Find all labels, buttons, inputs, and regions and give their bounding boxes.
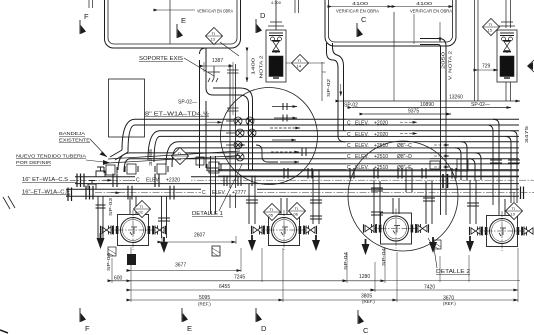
stub line near I1 top	[295, 0, 299, 13]
P3 suction riser	[393, 198, 399, 214]
svg-text:16" ET–W1A–C.S: 16" ET–W1A–C.S	[22, 177, 69, 183]
svg-text:3677: 3677	[175, 263, 186, 269]
centerline ELEV +2777	[95, 192, 534, 194]
section marker D bottom	[256, 308, 262, 322]
svg-text:3475: 3475	[524, 125, 529, 143]
diamond tag TI-02	[134, 201, 151, 218]
flange pair on C.E pipe	[128, 186, 174, 200]
svg-text:POR DEFINIR: POR DEFINIR	[16, 160, 52, 165]
pipe break marks left edge	[3, 196, 15, 209]
P2 suction riser	[281, 198, 287, 214]
svg-text:SP-03: SP-03	[108, 197, 113, 216]
valve on C.E pipe	[88, 181, 96, 190]
corner mark bottom-left	[0, 330, 8, 333]
small valves inside detail 1	[226, 88, 306, 170]
P1 suction riser	[130, 196, 136, 214]
header line 10890	[352, 107, 511, 109]
svg-text:SP-04: SP-04	[106, 252, 111, 271]
elbows pipes 3-4 down	[455, 142, 481, 180]
small riser with flanges x=232	[227, 64, 239, 208]
small sp box P3	[433, 240, 441, 249]
svg-text:Ø8"–D: Ø8"–D	[397, 154, 412, 160]
section arrow right edge	[528, 62, 534, 70]
svg-text:10: 10	[511, 212, 516, 217]
drain cone P1 right	[160, 237, 168, 253]
diamond tag TI-13	[206, 28, 223, 45]
svg-text:15: 15	[488, 28, 493, 33]
svg-text:C: C	[347, 132, 351, 138]
svg-text:TI: TI	[489, 22, 493, 27]
drain cone P2 left	[248, 235, 256, 251]
svg-text:02: 02	[139, 210, 144, 215]
svg-text:2607: 2607	[194, 233, 205, 239]
stub line above I2	[506, 0, 511, 28]
P4 suction riser	[499, 199, 505, 215]
svg-text:2050: 2050	[441, 51, 446, 69]
section marker F bottom	[80, 308, 86, 322]
risers above P3	[371, 159, 468, 224]
svg-text:SOPORTE EXIS: SOPORTE EXIS	[139, 56, 184, 62]
flange ticks on +2320 row mid	[224, 176, 255, 187]
svg-text:TI: TI	[178, 151, 182, 156]
svg-text:F: F	[84, 12, 89, 21]
svg-text:E: E	[181, 16, 186, 25]
svg-text:4100: 4100	[352, 1, 369, 6]
svg-text:VERIFICAR EN OBRA: VERIFICAR EN OBRA	[410, 9, 452, 14]
tray lines (bandeja)	[108, 151, 240, 163]
pump P4	[476, 211, 528, 251]
svg-text:16"–ET–W1A–C.E: 16"–ET–W1A–C.E	[22, 190, 71, 196]
section marker E top	[177, 24, 183, 38]
svg-text:DETALLE 2: DETALLE 2	[436, 269, 470, 275]
pump P3	[370, 209, 422, 249]
svg-text:+2320: +2320	[166, 177, 180, 183]
flow arrows on 16" pipes	[103, 179, 112, 181]
elbows pipes 1-2 down to P4	[487, 119, 517, 168]
section marker E bottom	[182, 308, 188, 322]
section marker C top	[357, 23, 363, 37]
svg-text:C: C	[363, 326, 369, 335]
svg-text:ELEV.: ELEV.	[355, 132, 369, 138]
dimension 4100 right	[396, 6, 453, 8]
diamond tag TI-05	[264, 204, 281, 221]
svg-text:1387: 1387	[212, 58, 223, 64]
svg-text:ELEV.: ELEV.	[146, 177, 160, 183]
tray fittings	[104, 157, 221, 175]
svg-text:C: C	[347, 154, 351, 160]
svg-text:TI: TI	[295, 206, 299, 211]
extension lines	[112, 236, 518, 302]
TI-10 stem	[513, 192, 515, 202]
header line 13260	[340, 100, 520, 102]
dimension 4100 left	[332, 6, 392, 8]
svg-text:13260: 13260	[449, 95, 463, 101]
dark box below P1	[127, 254, 136, 265]
equipment outline E1 top-left	[105, 0, 241, 48]
svg-text:TI: TI	[140, 204, 144, 209]
svg-text:NUEVO TENDIDO TUBERIA: NUEVO TENDIDO TUBERIA	[16, 154, 86, 159]
drain cone P4 left	[466, 236, 474, 252]
diamond tag TI-15	[483, 19, 500, 36]
svg-text:ELEV.: ELEV.	[355, 143, 369, 149]
pipe riser from E2 left	[327, 43, 346, 142]
risers above P4	[467, 160, 520, 224]
valve left of P1	[101, 226, 113, 234]
svg-text:VERIFICAR EN OBRA: VERIFICAR EN OBRA	[197, 9, 233, 14]
vertical pipe right x=443 through band	[441, 101, 447, 215]
svg-text:4.300: 4.300	[271, 0, 282, 5]
svg-text:+2510: +2510	[374, 154, 388, 160]
detail circle DETALLE 1	[221, 88, 318, 185]
diamond tag TI-06	[289, 203, 306, 220]
svg-text:F: F	[85, 324, 90, 333]
horizontal pipe y=173	[218, 171, 519, 176]
pipe run ELEV+2510 D (through TI-04 diamond)	[118, 153, 519, 172]
svg-text:TI: TI	[512, 206, 516, 211]
svg-text:Ø8"–E: Ø8"–E	[397, 165, 412, 171]
svg-text:TI: TI	[212, 31, 216, 36]
svg-text:EXISTENTE: EXISTENTE	[59, 138, 90, 143]
svg-text:C: C	[202, 190, 206, 196]
svg-text:C: C	[347, 120, 351, 126]
svg-text:C: C	[347, 143, 351, 149]
drain cone P1 left	[97, 233, 105, 249]
vertical line x=394 to band	[393, 43, 395, 101]
svg-text:SP-02: SP-02	[344, 103, 358, 109]
pump P1	[107, 210, 159, 250]
svg-text:+2510: +2510	[374, 165, 388, 171]
drain cone P3 left	[362, 239, 370, 255]
flange pair on C.S pipe	[113, 174, 159, 188]
pipe riser from E1	[200, 48, 241, 168]
svg-text:7245: 7245	[234, 275, 245, 281]
svg-text:05: 05	[269, 213, 274, 218]
pipe run ELEV+2510 E	[218, 164, 519, 170]
instrument assembly I1	[266, 30, 286, 82]
svg-text:06: 06	[294, 212, 299, 217]
svg-text:NOTA 2: NOTA 2	[259, 55, 264, 79]
svg-text:9375: 9375	[408, 109, 419, 115]
section marker F top	[80, 20, 86, 34]
svg-text:TI: TI	[270, 207, 274, 212]
svg-text:SP-02—: SP-02—	[178, 100, 197, 106]
pipe run ELEV+2020 a	[110, 119, 519, 160]
drain cone P3 right	[429, 237, 437, 253]
svg-text:6455: 6455	[219, 284, 230, 290]
svg-text:+2020: +2020	[374, 132, 388, 138]
svg-text:8" ET–W1A–TD4,½: 8" ET–W1A–TD4,½	[145, 111, 210, 118]
riser pair above P2 left	[208, 156, 323, 224]
svg-text:13: 13	[211, 37, 216, 42]
svg-text:4100: 4100	[416, 1, 433, 6]
pipe run ELEV+2510 C	[166, 142, 519, 167]
header pipe end cap	[521, 187, 524, 200]
svg-text:D: D	[261, 324, 267, 333]
stub below I2	[506, 82, 511, 101]
section marker D top	[256, 19, 262, 33]
svg-text:729: 729	[482, 64, 491, 70]
svg-text:Ø8"–C: Ø8"–C	[397, 143, 412, 149]
equipment outline E2 top-right	[325, 0, 456, 46]
section marker C bottom	[358, 310, 364, 324]
svg-text:14: 14	[297, 64, 302, 69]
svg-text:(REF.): (REF.)	[198, 302, 211, 307]
pipe run ELEV+2020 b	[148, 131, 519, 162]
valve right of P1	[154, 226, 166, 234]
svg-text:TI: TI	[298, 58, 302, 63]
diamond tag TI-10	[506, 203, 523, 220]
diamond tag TI-14	[292, 55, 309, 72]
small box hatch mid	[212, 246, 220, 256]
svg-text:SP-02: SP-02	[326, 78, 331, 97]
svg-text:D: D	[260, 11, 266, 20]
centerline ELEV +2320	[128, 179, 534, 181]
flange ticks on band	[284, 168, 456, 179]
svg-text:+2777: +2777	[232, 190, 246, 196]
diamond tag TI-04	[172, 148, 189, 165]
small box hatch left	[108, 247, 116, 256]
valve on C.S pipe	[96, 167, 105, 177]
dimension arrow E1 verificar	[158, 9, 195, 11]
svg-text:BANDEJA: BANDEJA	[59, 131, 85, 136]
svg-text:7420: 7420	[424, 285, 435, 291]
svg-text:E: E	[187, 324, 192, 333]
box bandeja	[109, 79, 145, 137]
label leader lines 16"	[66, 182, 77, 195]
svg-text:C: C	[136, 177, 140, 183]
dimension 9375	[364, 113, 451, 115]
svg-text:1280: 1280	[359, 274, 370, 280]
svg-text:10890: 10890	[420, 102, 434, 108]
stub line top-left	[89, 0, 93, 8]
pump P2	[258, 210, 310, 250]
svg-text:C: C	[361, 15, 367, 24]
detail circle DETALLE 2	[348, 141, 458, 251]
svg-text:VERIFICAR EN OBRA: VERIFICAR EN OBRA	[336, 9, 379, 14]
drain cone P2 right	[312, 235, 320, 251]
dimension 729	[478, 69, 498, 71]
support symbol	[208, 66, 220, 82]
svg-text:ELEV.: ELEV.	[355, 120, 369, 126]
svg-text:1400: 1400	[251, 57, 256, 75]
dimension 1400 vertical	[246, 52, 248, 82]
svg-text:ELEV.: ELEV.	[212, 190, 226, 196]
pipe elbow E2 right	[420, 39, 446, 102]
svg-text:+2020: +2020	[374, 120, 388, 126]
instrument assembly I2	[497, 30, 517, 82]
vertical line at x=476	[475, 0, 479, 101]
svg-text:V. NOTA 2: V. NOTA 2	[448, 50, 453, 80]
svg-text:SP-02—: SP-02—	[471, 102, 490, 108]
label SP-02 vertical at riser	[322, 62, 326, 101]
svg-text:(REF.): (REF.)	[443, 301, 456, 306]
svg-text:DETALLE 1: DETALLE 1	[192, 211, 223, 217]
